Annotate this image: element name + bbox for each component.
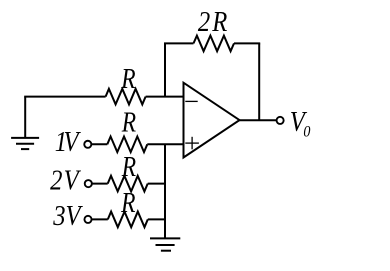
svg-text:2R: 2R — [198, 6, 227, 37]
svg-text:R: R — [120, 63, 135, 94]
wire: 2V terminal to R4 — [92, 183, 108, 185]
wire: R3 to op-amp noninverting input — [147, 143, 183, 145]
resistor R2 (feedback 2R) — [194, 36, 235, 52]
terminal: 1V input circle — [84, 141, 91, 148]
wire: ground stub to inverting input wire — [24, 97, 26, 138]
terminal: output circle — [277, 117, 284, 124]
op-amp U1 minus sign — [185, 100, 197, 102]
resistor R1 — [106, 89, 146, 105]
svg-text:R: R — [120, 187, 135, 218]
svg-text:0: 0 — [303, 124, 310, 141]
wire: feedback top right segment — [234, 42, 260, 44]
resistor R3 — [107, 137, 147, 153]
wire: R5 to bus — [148, 218, 166, 220]
svg-text:1V: 1V — [55, 126, 82, 157]
resistor R4 — [108, 176, 148, 192]
op-amp U1 plus sign — [185, 137, 199, 150]
op-amp U1 — [184, 83, 240, 158]
wire: noninverting bus vertical to ground — [164, 144, 166, 238]
wire: 3V terminal to R5 — [92, 218, 108, 220]
wire: 1V terminal to R3 — [91, 143, 107, 145]
wire: feedback left vertical — [164, 43, 166, 96]
ground GND1 (left) — [11, 138, 39, 149]
wire: left segment to resistor R1 — [24, 96, 105, 98]
wire: feedback right vertical — [258, 43, 260, 120]
wire: R4 to bus — [148, 183, 166, 185]
wire: op-amp output to terminal — [240, 119, 277, 121]
wire: feedback top left segment — [164, 42, 194, 44]
svg-text:2V: 2V — [50, 165, 81, 196]
terminal: 3V input circle — [84, 216, 91, 223]
terminal: 2V input circle — [85, 180, 92, 187]
svg-text:3V: 3V — [52, 200, 83, 231]
resistor R5 — [108, 212, 148, 228]
svg-text:R: R — [121, 151, 136, 182]
svg-text:R: R — [121, 107, 136, 138]
ground GND2 (bottom) — [150, 238, 180, 250]
wire: R1 to op-amp inverting input — [146, 96, 184, 98]
